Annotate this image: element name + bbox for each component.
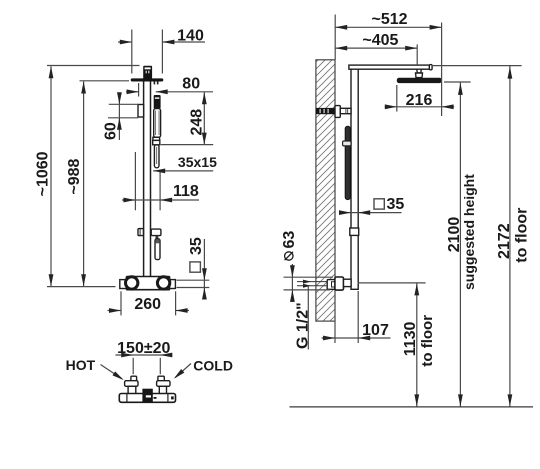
svg-text:1130: 1130 [402,321,419,356]
svg-text:~512: ~512 [371,11,407,28]
svg-text:~988: ~988 [66,158,83,194]
svg-text:216: 216 [406,92,433,109]
svg-text:118: 118 [173,183,199,200]
svg-text:35x15: 35x15 [178,154,217,170]
svg-text:2172: 2172 [496,223,513,259]
svg-text:HOT: HOT [66,357,96,373]
svg-text:248: 248 [189,109,206,136]
svg-text:to floor: to floor [514,208,531,263]
svg-text:140: 140 [177,28,204,45]
svg-text:~405: ~405 [362,32,398,49]
svg-text:G 1/2": G 1/2" [295,302,312,349]
svg-text:150±20: 150±20 [117,340,170,357]
svg-text:107: 107 [362,322,389,339]
svg-text:suggested height: suggested height [461,174,477,290]
svg-text:35: 35 [188,237,205,255]
svg-text:~1060: ~1060 [34,151,51,196]
svg-text:80: 80 [182,76,200,93]
svg-text:COLD: COLD [193,358,233,374]
svg-text:35: 35 [387,196,405,213]
svg-text:63: 63 [281,231,298,249]
svg-text:60: 60 [102,122,119,140]
svg-text:260: 260 [134,296,161,313]
svg-text:to floor: to floor [419,315,436,367]
